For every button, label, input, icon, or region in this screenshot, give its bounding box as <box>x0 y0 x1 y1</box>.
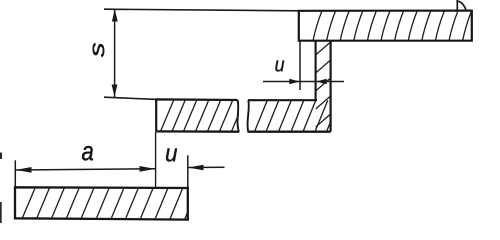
riser hatching <box>316 42 331 127</box>
middle tread left part hatching <box>161 100 245 132</box>
bottom tread outline <box>15 187 188 219</box>
label u (upper) <box>275 60 284 71</box>
top tread outline <box>299 11 472 41</box>
top reference line (upper tread walking surface, extends left) <box>104 9 300 11</box>
middle tread right part hatching <box>255 100 340 132</box>
scan smudge left edge lower <box>0 202 2 223</box>
label a <box>82 146 93 160</box>
scan smudge left edge upper <box>0 153 2 160</box>
label u (lower) <box>166 149 177 162</box>
middle tread left part outline (with break edge) <box>156 99 239 131</box>
dimension line u (lower right) with tick and arrow <box>188 155 225 187</box>
dimension line s (vertical) <box>112 9 118 97</box>
bottom reference line of s (middle tread surface, extends left) <box>104 97 157 99</box>
label s (rotated) <box>93 43 105 57</box>
next-step break mark (top right) <box>457 0 466 11</box>
top tread hatching <box>313 11 472 41</box>
dimension line u (upper) <box>263 79 344 84</box>
bottom tread hatching <box>22 188 197 220</box>
dimension line a with ticks and arrows <box>15 160 155 187</box>
extension line below middle tread front edge <box>155 132 157 188</box>
riser outline <box>316 41 331 132</box>
nosing extension line (from top tread front edge down) <box>299 41 301 90</box>
middle tread right part outline (with break edge) <box>247 100 330 132</box>
